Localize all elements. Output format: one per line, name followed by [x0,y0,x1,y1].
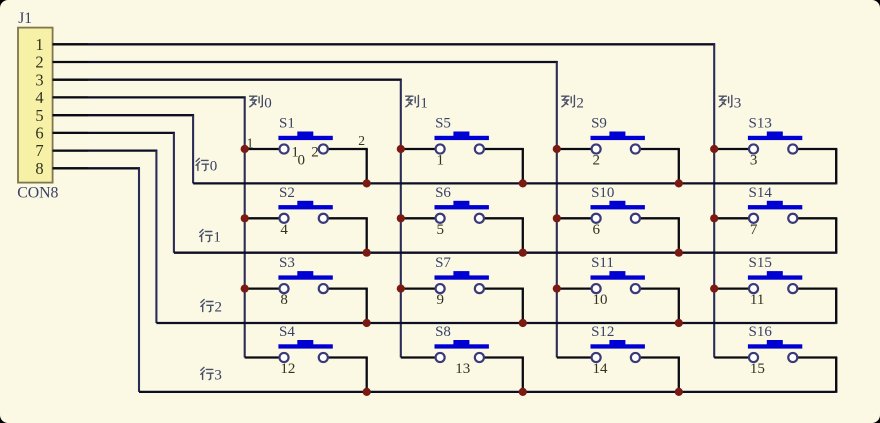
net label xing0 (row 0) [196,158,208,170]
wire: row 0 bus line (net xing0) [193,182,837,184]
push button S7 [401,271,524,323]
svg-text:S5: S5 [435,116,451,132]
junction: column 3 x row-2 button left pin [710,285,718,293]
svg-text:7: 7 [35,141,43,160]
svg-text:2: 2 [311,144,319,160]
net label xing3 (row 3) [201,367,213,379]
svg-text:2: 2 [576,95,584,111]
svg-text:14: 14 [593,361,609,377]
push button S4 [245,340,368,392]
net label xing2 (row 2) [201,300,213,312]
svg-text:0: 0 [264,95,272,111]
wire: row 3 left drop vertical [138,168,140,392]
svg-text:10: 10 [593,292,608,308]
pin stub J1.4 [53,96,88,98]
svg-text:S2: S2 [279,185,295,201]
svg-text:S14: S14 [749,185,773,201]
junction: S1 drop on row 0 bus [363,179,371,187]
svg-text:S6: S6 [435,185,451,201]
wire: row 0 left drop vertical [192,115,194,183]
pin stub J1.3 [53,79,88,81]
svg-text:J1: J1 [18,10,32,27]
junction: S11 drop on row 2 bus [675,319,683,327]
pin stub J1.6 [53,132,88,134]
wire: J1 pin 4 to column 0 [53,96,246,98]
pin stub J1.7 [53,150,88,152]
push button S15 [714,271,837,323]
wire: J1 pin 1 to column 3 [53,43,716,45]
push button S3 [245,271,368,323]
svg-text:8: 8 [280,292,288,308]
junction: column 0 x row-1 button left pin [241,214,249,222]
junction: S8 drop on row 3 bus [519,388,527,396]
pin stub J1.8 [53,167,88,169]
push button S1 [245,132,368,184]
pin stub J1.1 [53,43,88,45]
svg-text:2: 2 [593,153,601,169]
junction: S7 drop on row 2 bus [519,319,527,327]
svg-text:2: 2 [358,133,365,148]
wire: row 2 left drop vertical [155,151,157,323]
junction: S4 drop on row 3 bus [363,388,371,396]
wire: J1 pin 6 horizontal [53,132,175,134]
svg-text:2: 2 [215,300,223,316]
wire: J1 pin 7 horizontal [53,149,158,151]
push button S13 [714,132,837,184]
wire: J1 pin 2 to column 2 [53,61,558,63]
wire: S14 right drop to row 1 [835,218,837,253]
svg-text:3: 3 [734,95,742,111]
svg-text:S1: S1 [279,116,295,132]
wire: row 3 bus line (net xing3) [139,391,837,393]
push button S2 [245,201,368,253]
svg-text:S11: S11 [591,255,614,271]
svg-text:S4: S4 [279,324,295,340]
svg-text:S13: S13 [749,116,772,132]
push button S6 [401,201,524,253]
wire: J1 pin 3 to column 1 [53,79,402,81]
junction: column 1 x row-2 button left pin [397,285,405,293]
svg-text:1: 1 [437,153,445,169]
svg-text:11: 11 [750,292,764,308]
junction: S2 drop on row 1 bus [363,249,371,257]
svg-text:CON8: CON8 [17,185,58,202]
wire: row 1 left drop vertical [173,133,175,253]
push button S12 [557,340,680,392]
svg-text:S3: S3 [279,255,295,271]
push button S8 [401,340,524,392]
junction: column 0 x row-2 button left pin [241,285,249,293]
push button S16 [714,340,837,392]
pin stub J1.5 [53,114,88,116]
wire: row 1 bus line (net xing1) [174,252,837,254]
svg-text:1: 1 [420,95,428,111]
svg-text:S16: S16 [749,324,773,340]
svg-text:12: 12 [280,361,295,377]
svg-text:S15: S15 [749,255,772,271]
junction: S12 drop on row 3 bus [675,388,683,396]
svg-text:5: 5 [35,106,43,125]
svg-text:S8: S8 [435,324,451,340]
wire: column 2 vertical (net lie2) [556,62,558,358]
svg-text:3: 3 [35,70,43,89]
connector J1 body [18,28,53,183]
svg-text:7: 7 [750,222,758,238]
svg-text:8: 8 [35,159,43,178]
push button S14 [714,201,837,253]
wire: J1 pin 8 horizontal [53,167,140,169]
wire: row 2 bus line (net xing2) [156,322,837,324]
junction: S3 drop on row 2 bus [363,319,371,327]
svg-text:4: 4 [35,88,43,107]
svg-text:S7: S7 [435,255,451,271]
junction: S6 drop on row 1 bus [519,249,527,257]
svg-text:4: 4 [280,222,288,238]
junction: S10 drop on row 1 bus [675,249,683,257]
push button S11 [557,271,680,323]
junction: column 0 x row-0 button left pin [241,145,249,153]
svg-text:5: 5 [437,222,445,238]
svg-text:3: 3 [214,368,222,384]
junction: column 2 x row-2 button left pin [553,285,561,293]
net label lie2 (column 2) [562,95,575,107]
net label xing1 (row 1) [200,230,212,242]
svg-text:3: 3 [750,153,758,169]
wire: column 0 vertical (net lie0) [244,97,246,357]
svg-text:2: 2 [35,53,43,72]
net label lie1 (column 1) [406,95,419,107]
junction: column 1 x row-1 button left pin [397,214,405,222]
svg-text:S12: S12 [591,324,614,340]
junction: S5 drop on row 0 bus [519,179,527,187]
wire: J1 pin 5 horizontal [53,114,195,116]
svg-text:0: 0 [210,159,218,175]
push button S5 [401,132,524,184]
svg-text:0: 0 [298,152,306,168]
svg-text:S9: S9 [591,116,607,132]
svg-text:6: 6 [35,124,43,143]
push button S9 [557,132,680,184]
junction: column 3 x row-1 button left pin [710,214,718,222]
junction: column 2 x row-1 button left pin [553,214,561,222]
svg-text:S10: S10 [591,185,614,201]
push button S10 [557,201,680,253]
junction: column 3 x row-0 button left pin [710,145,718,153]
svg-text:15: 15 [750,361,765,377]
wire: column 3 vertical (net lie3) [713,44,715,357]
svg-text:9: 9 [437,292,445,308]
net label lie3 (column 3) [719,95,732,107]
junction: column 1 x row-0 button left pin [397,145,405,153]
junction: S9 drop on row 0 bus [675,179,683,187]
svg-text:13: 13 [455,361,470,377]
svg-text:1: 1 [35,35,43,54]
wire: S13 right drop to row 0 [835,149,837,184]
junction: column 2 x row-0 button left pin [553,145,561,153]
wire: column 1 vertical (net lie1) [400,80,402,358]
wire: S15 right drop to row 2 [835,289,837,324]
pin stub J1.2 [53,61,88,63]
net label lie0 (column 0) [250,95,263,107]
svg-text:1: 1 [213,230,221,246]
wire: S16 right drop to row 3 [835,358,837,393]
svg-text:6: 6 [593,222,601,238]
